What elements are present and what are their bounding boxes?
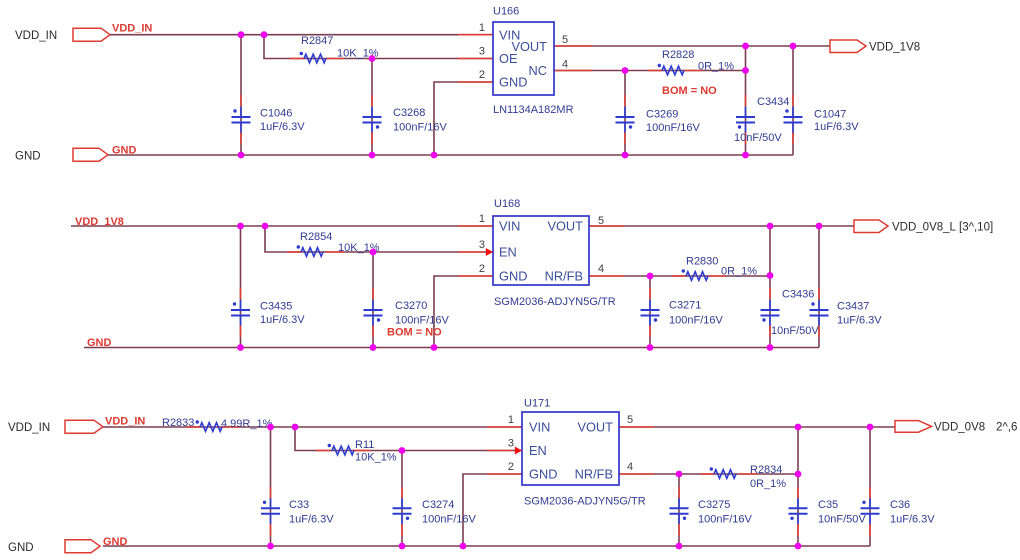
junction dots bbox=[237, 223, 244, 230]
wire U166 NC to R2828 bbox=[554, 70, 746, 72]
svg-text:100nF/16V: 100nF/16V bbox=[646, 122, 700, 134]
GND bus wire bbox=[103, 545, 870, 547]
svg-text:C1046: C1046 bbox=[260, 108, 292, 120]
svg-text:3: 3 bbox=[479, 46, 485, 58]
resistor R11 bbox=[328, 444, 354, 455]
svg-text:NR/FB: NR/FB bbox=[575, 467, 613, 482]
svg-text:C3437: C3437 bbox=[837, 301, 869, 313]
capacitor C3435 bbox=[231, 300, 250, 326]
svg-text:R2847: R2847 bbox=[301, 35, 333, 47]
svg-text:10nF/50V: 10nF/50V bbox=[818, 514, 866, 526]
wire C3271 vertical bbox=[649, 276, 651, 348]
svg-text:4: 4 bbox=[562, 59, 568, 71]
svg-text:100nF/16V: 100nF/16V bbox=[422, 514, 476, 526]
capacitor C1047 bbox=[784, 107, 803, 133]
port VDD_IN bbox=[65, 420, 103, 433]
junction dots bbox=[238, 31, 245, 38]
svg-text:C3275: C3275 bbox=[698, 499, 730, 511]
svg-text:VOUT: VOUT bbox=[547, 219, 583, 234]
svg-text:0R_1%: 0R_1% bbox=[721, 266, 757, 278]
pin stubs (red) bbox=[458, 225, 493, 227]
wire C33 vertical bbox=[270, 427, 272, 546]
svg-text:3: 3 bbox=[508, 438, 514, 450]
svg-text:R2834: R2834 bbox=[750, 464, 782, 476]
wire C36 vertical bbox=[869, 427, 871, 546]
svg-text:2^,6: 2^,6 bbox=[996, 422, 1017, 434]
svg-text:GND: GND bbox=[529, 467, 557, 482]
svg-text:VOUT: VOUT bbox=[577, 420, 613, 435]
svg-text:GND: GND bbox=[499, 75, 527, 90]
svg-text:VIN: VIN bbox=[529, 420, 550, 435]
wire branch to R2854 bbox=[265, 226, 493, 252]
svg-text:5: 5 bbox=[598, 215, 604, 227]
wire C1046 vertical bbox=[240, 35, 242, 155]
svg-text:VDD_IN: VDD_IN bbox=[105, 416, 145, 428]
svg-text:1uF/6.3V: 1uF/6.3V bbox=[260, 121, 305, 133]
EN arrow bbox=[515, 447, 522, 455]
svg-text:C3271: C3271 bbox=[669, 300, 701, 312]
wire U168 NR/FB to R2830 bbox=[589, 275, 770, 277]
svg-text:VDD_IN: VDD_IN bbox=[112, 23, 152, 35]
svg-text:C3268: C3268 bbox=[393, 107, 425, 119]
port VDD_IN bbox=[73, 28, 110, 41]
EN arrow bbox=[486, 248, 493, 256]
resistor R2833 bbox=[196, 420, 222, 431]
capacitor C3268 bbox=[363, 107, 382, 133]
svg-text:VDD_IN: VDD_IN bbox=[8, 422, 50, 434]
wire C3274 vertical bbox=[401, 451, 403, 547]
svg-text:SGM2036-ADJYN5G/TR: SGM2036-ADJYN5G/TR bbox=[494, 296, 616, 308]
port VDD_1V8 (output) bbox=[830, 40, 866, 53]
svg-text:R2828: R2828 bbox=[662, 49, 694, 61]
svg-text:GND: GND bbox=[15, 151, 41, 163]
IC U168 bbox=[493, 216, 589, 285]
GND bus wire bbox=[108, 154, 793, 156]
svg-text:SGM2036-ADJYN5G/TR: SGM2036-ADJYN5G/TR bbox=[524, 496, 646, 508]
svg-text:4: 4 bbox=[598, 263, 604, 275]
svg-text:LN1134A182MR: LN1134A182MR bbox=[493, 104, 574, 116]
svg-text:1: 1 bbox=[479, 22, 485, 34]
svg-text:0R_1%: 0R_1% bbox=[750, 478, 786, 490]
capacitor C33 bbox=[261, 498, 280, 524]
svg-text:1uF/6.3V: 1uF/6.3V bbox=[837, 315, 882, 327]
IC U171 bbox=[522, 412, 619, 485]
wire branch to R2847 bbox=[264, 35, 493, 59]
wire U171 NR/FB to R2834 bbox=[619, 473, 798, 475]
svg-text:U166: U166 bbox=[493, 6, 519, 18]
wire U168 VOUT to port bbox=[589, 225, 854, 227]
svg-text:C1047: C1047 bbox=[814, 109, 846, 121]
svg-text:GND: GND bbox=[112, 145, 137, 157]
svg-text:C3270: C3270 bbox=[395, 300, 427, 312]
capacitor C3270 bbox=[364, 300, 383, 326]
svg-text:NC: NC bbox=[529, 63, 547, 78]
svg-text:VDD_1V8: VDD_1V8 bbox=[869, 42, 920, 54]
port GND bbox=[73, 148, 108, 161]
svg-text:10K_1%: 10K_1% bbox=[355, 452, 397, 464]
wire C3434 vertical bbox=[745, 46, 747, 155]
wire U166 VOUT to port bbox=[554, 45, 830, 47]
capacitor C1046 bbox=[232, 107, 251, 133]
wire VDD_IN to U166 pin1 bbox=[110, 34, 493, 36]
wire C3435 vertical bbox=[240, 226, 242, 348]
svg-text:C35: C35 bbox=[818, 499, 838, 511]
capacitor C36 bbox=[861, 498, 880, 524]
svg-text:4.99R_1%: 4.99R_1% bbox=[221, 418, 273, 430]
svg-text:EN: EN bbox=[499, 245, 517, 260]
svg-text:0R_1%: 0R_1% bbox=[698, 61, 734, 73]
svg-text:100nF/16V: 100nF/16V bbox=[698, 514, 752, 526]
port GND bbox=[65, 540, 100, 553]
GND bus wire bbox=[84, 347, 819, 349]
svg-text:[3^,10]: [3^,10] bbox=[959, 222, 993, 234]
svg-text:10nF/50V: 10nF/50V bbox=[734, 132, 782, 144]
svg-text:100nF/16V: 100nF/16V bbox=[393, 122, 447, 134]
wire C3269 vertical bbox=[624, 71, 626, 156]
svg-text:3: 3 bbox=[479, 239, 485, 251]
svg-text:5: 5 bbox=[627, 414, 633, 426]
capacitor C3434 bbox=[736, 107, 755, 133]
svg-text:C3274: C3274 bbox=[422, 499, 454, 511]
port VDD_0V8 (output) bbox=[895, 421, 932, 433]
pin stubs (red) bbox=[487, 426, 522, 428]
wire branch to R11 bbox=[295, 427, 522, 451]
svg-text:5: 5 bbox=[562, 34, 568, 46]
svg-text:2: 2 bbox=[508, 461, 514, 473]
svg-text:R2830: R2830 bbox=[686, 256, 718, 268]
capacitor C3269 bbox=[616, 107, 635, 133]
capacitor C3437 bbox=[810, 300, 829, 326]
svg-text:C3269: C3269 bbox=[646, 109, 678, 121]
pin stubs (red) bbox=[458, 34, 493, 36]
svg-text:C3434: C3434 bbox=[757, 96, 789, 108]
svg-text:1uF/6.3V: 1uF/6.3V bbox=[260, 314, 305, 326]
wire U171 GND pin2 bbox=[463, 474, 522, 546]
svg-text:GND: GND bbox=[8, 542, 34, 554]
wire VDD_IN through R2833 to U171 pin1 bbox=[103, 426, 522, 428]
resistor R2834 bbox=[710, 467, 736, 478]
wire U168 GND pin2 bbox=[434, 276, 493, 348]
svg-text:2: 2 bbox=[479, 69, 485, 81]
IC U166 bbox=[493, 22, 554, 95]
port VDD_0V8_L (output) bbox=[854, 220, 888, 233]
svg-text:VIN: VIN bbox=[499, 219, 520, 234]
svg-text:4: 4 bbox=[627, 461, 633, 473]
svg-text:OE: OE bbox=[499, 51, 518, 66]
wire C35 vertical bbox=[797, 427, 799, 546]
svg-text:VDD_0V8_L: VDD_0V8_L bbox=[892, 222, 957, 234]
junction dots bbox=[267, 424, 274, 431]
svg-text:C36: C36 bbox=[890, 499, 910, 511]
resistor R2830 bbox=[682, 269, 708, 280]
wire C1047 vertical bbox=[792, 46, 794, 155]
svg-text:R11: R11 bbox=[355, 439, 374, 451]
svg-text:100nF/16V: 100nF/16V bbox=[669, 315, 723, 327]
svg-text:1uF/6.3V: 1uF/6.3V bbox=[814, 121, 859, 133]
svg-text:GND: GND bbox=[499, 269, 527, 284]
wire C3437 vertical bbox=[818, 226, 820, 348]
svg-text:1: 1 bbox=[479, 213, 485, 225]
capacitor C35 bbox=[789, 498, 808, 524]
wire VDD_1V8 to U168 pin1 bbox=[71, 225, 493, 227]
svg-text:VDD_IN: VDD_IN bbox=[15, 30, 57, 42]
wire C3268 vertical bbox=[371, 59, 373, 156]
svg-text:2: 2 bbox=[479, 263, 485, 275]
svg-text:1uF/6.3V: 1uF/6.3V bbox=[890, 514, 935, 526]
svg-text:VDD_0V8: VDD_0V8 bbox=[934, 422, 985, 434]
svg-text:C3436: C3436 bbox=[782, 289, 814, 301]
svg-text:C3435: C3435 bbox=[260, 301, 292, 313]
wire C3436 vertical bbox=[769, 226, 771, 348]
capacitor C3274 bbox=[393, 498, 412, 524]
svg-text:10nF/50V: 10nF/50V bbox=[771, 325, 819, 337]
wire C3270 vertical bbox=[372, 252, 374, 348]
capacitor C3275 bbox=[670, 498, 689, 524]
svg-text:BOM = NO: BOM = NO bbox=[387, 327, 442, 339]
wire C3275 vertical bbox=[678, 474, 680, 546]
svg-text:U168: U168 bbox=[494, 198, 520, 210]
svg-text:100nF/16V: 100nF/16V bbox=[395, 315, 449, 327]
svg-text:BOM = NO: BOM = NO bbox=[662, 85, 717, 97]
capacitor C3271 bbox=[641, 300, 660, 326]
svg-text:1uF/6.3V: 1uF/6.3V bbox=[289, 514, 334, 526]
svg-text:R2833: R2833 bbox=[162, 417, 194, 429]
resistor R2854 bbox=[297, 245, 323, 256]
svg-text:C33: C33 bbox=[289, 499, 309, 511]
resistor R2828 bbox=[658, 64, 684, 75]
wire U166 GND pin2 bbox=[434, 82, 493, 155]
resistor R2847 bbox=[300, 52, 326, 63]
svg-text:1: 1 bbox=[508, 414, 514, 426]
svg-text:R2854: R2854 bbox=[300, 231, 332, 243]
svg-text:U171: U171 bbox=[524, 398, 550, 410]
capacitor C3436 bbox=[761, 300, 780, 326]
wire U171 VOUT to port bbox=[619, 426, 895, 428]
svg-text:NR/FB: NR/FB bbox=[545, 269, 583, 284]
svg-text:EN: EN bbox=[529, 443, 547, 458]
svg-text:GND: GND bbox=[87, 337, 112, 349]
svg-text:GND: GND bbox=[103, 536, 128, 548]
